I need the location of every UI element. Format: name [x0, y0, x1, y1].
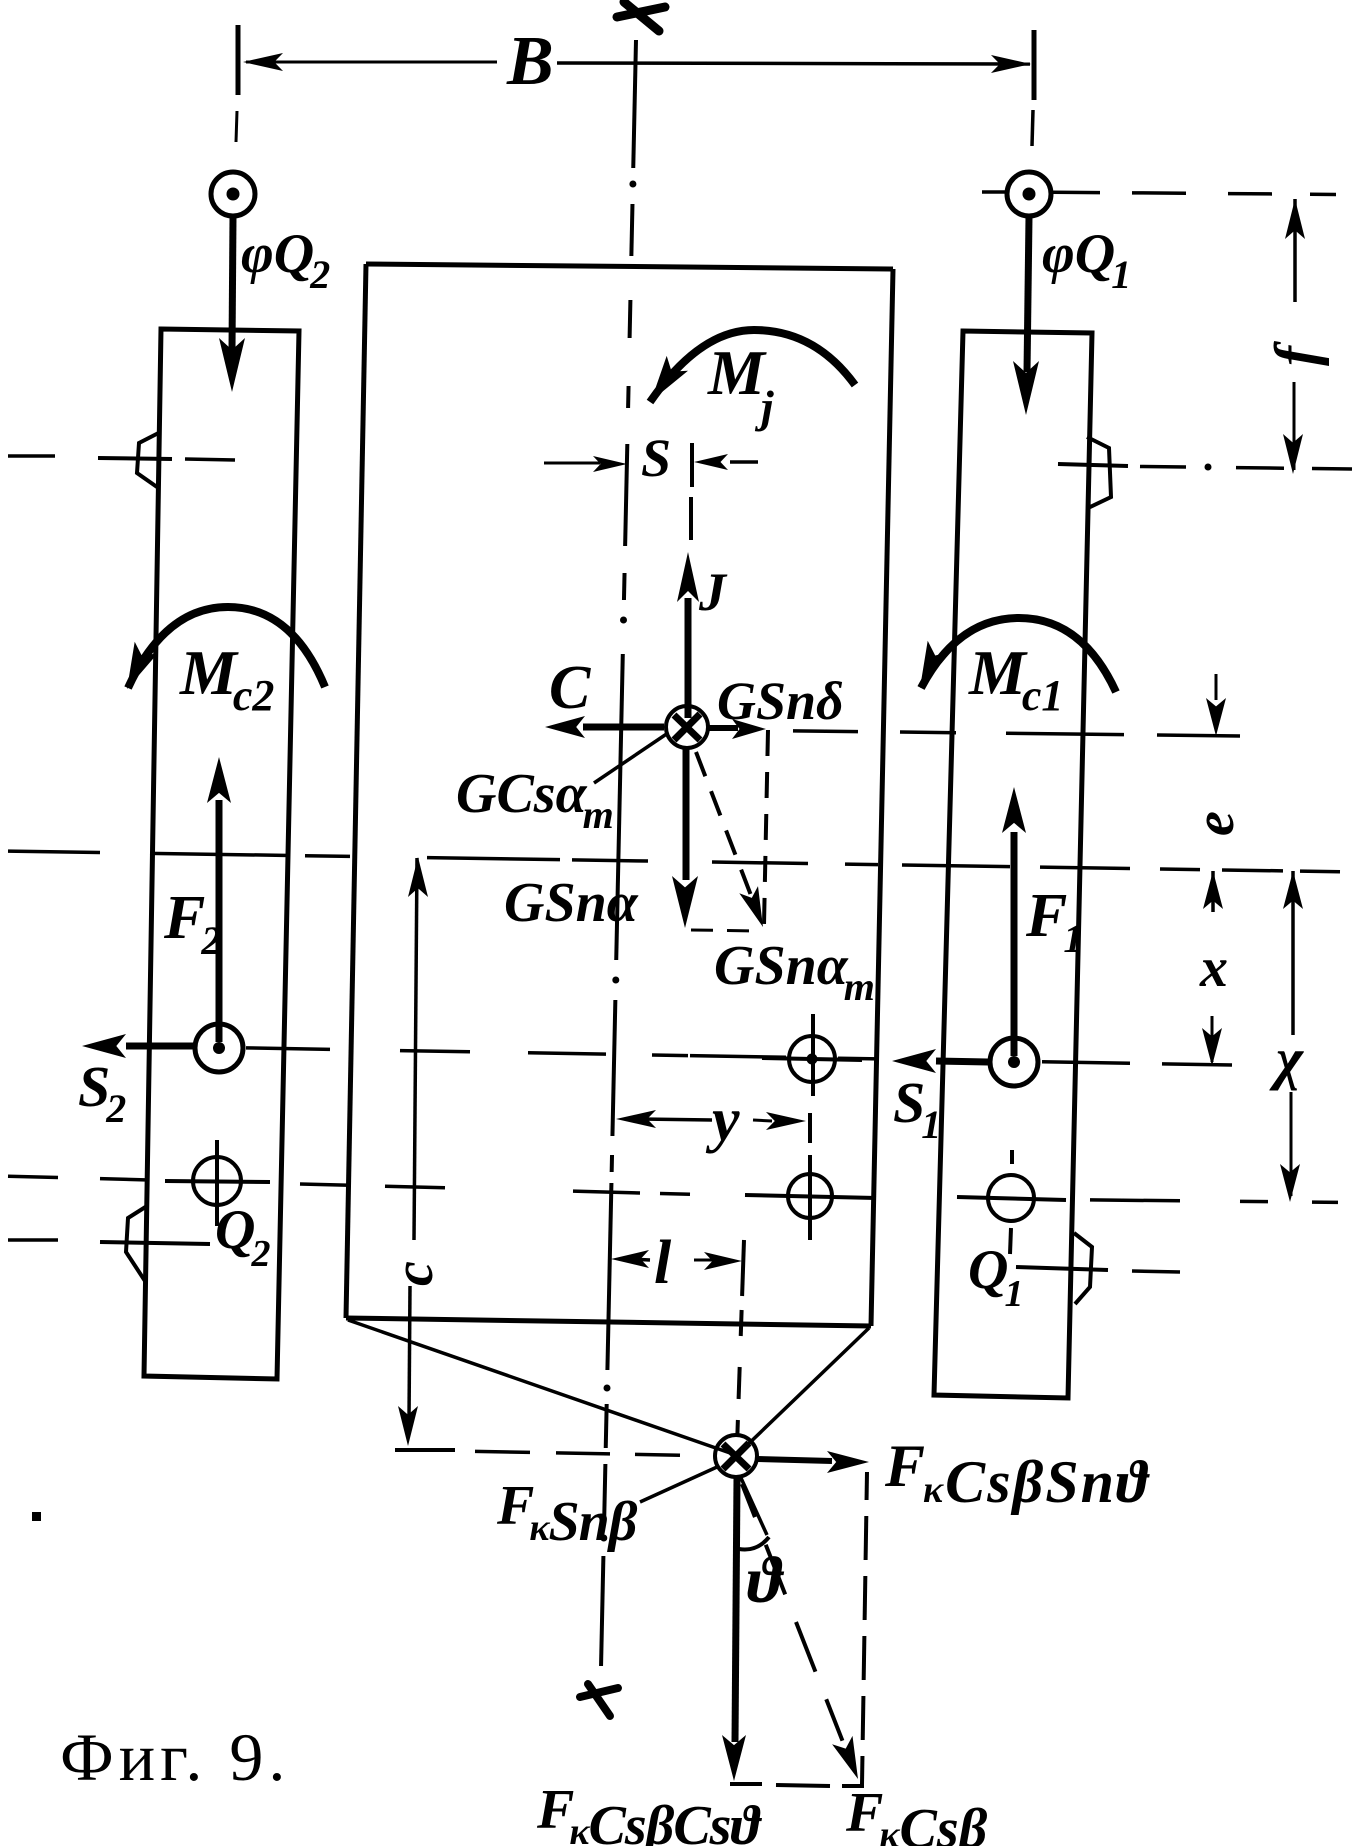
svg-text:c: c: [383, 1261, 445, 1286]
svg-text:GSnα: GSnα: [504, 872, 639, 934]
svg-text:ϑ: ϑ: [747, 1544, 785, 1617]
svg-text:S2: S2: [78, 1054, 126, 1131]
svg-text:l: l: [654, 1229, 672, 1297]
svg-text:Фиг. 9.: Фиг. 9.: [60, 1719, 290, 1795]
svg-text:Q1: Q1: [968, 1239, 1023, 1315]
svg-text:B: B: [506, 23, 554, 100]
svg-text:Q2: Q2: [215, 1199, 270, 1275]
svg-text:FκCsβCsϑ: FκCsβCsϑ: [536, 1779, 762, 1846]
svg-text:S1: S1: [893, 1070, 941, 1147]
svg-text:FκCsβSnϑ: FκCsβSnϑ: [884, 1433, 1150, 1515]
svg-text:Mc1: Mc1: [968, 637, 1063, 720]
svg-text:e: e: [1184, 811, 1246, 836]
svg-text:FκSnβ: FκSnβ: [496, 1475, 638, 1553]
svg-text:GSnδ: GSnδ: [717, 671, 844, 731]
svg-text:x: x: [1199, 937, 1228, 999]
svg-text:F1: F1: [1025, 882, 1083, 961]
svg-text:C: C: [549, 654, 591, 722]
svg-text:Mc2: Mc2: [179, 637, 274, 720]
svg-text:FκCsβ: FκCsβ: [845, 1782, 988, 1846]
svg-text:J: J: [698, 562, 728, 622]
svg-text:GCsαm: GCsαm: [456, 763, 614, 837]
svg-text:f: f: [1263, 341, 1329, 366]
svg-text:GSnαm: GSnαm: [714, 935, 875, 1009]
svg-text:F2: F2: [163, 884, 221, 963]
svg-text:Mj: Mj: [707, 337, 774, 432]
svg-text:φQ2: φQ2: [241, 223, 330, 297]
svg-text:χ: χ: [1269, 1026, 1304, 1091]
svg-text:φQ1: φQ1: [1042, 223, 1131, 297]
svg-text:S: S: [641, 428, 671, 488]
